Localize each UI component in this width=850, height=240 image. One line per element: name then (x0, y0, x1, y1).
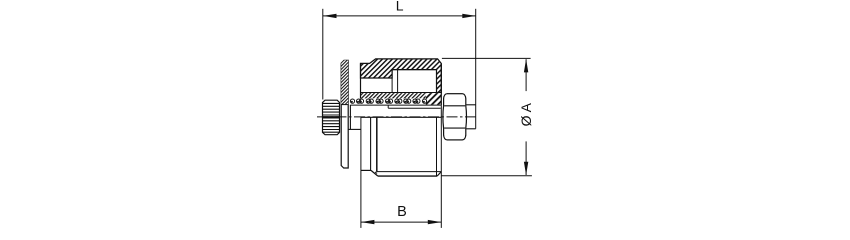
spring sleeve hatched strip (361, 93, 426, 98)
spring coil circles (350, 99, 426, 103)
hex face lines (444, 105, 465, 107)
hex nut outline (443, 94, 467, 140)
block inner right edge (436, 117, 438, 176)
shaft lower silhouette (348, 128, 361, 130)
body right face line (440, 64, 442, 106)
flange hatch bottom boundary (341, 104, 348, 106)
small left corner chamfer line (375, 172, 377, 174)
threaded stub (466, 105, 476, 129)
block chamfer edge line (377, 171, 441, 173)
block left edge (376, 117, 378, 172)
neck left edge + B extension line (360, 117, 362, 228)
coarse hatched end block (426, 93, 442, 105)
svg-text:Ø A: Ø A (518, 102, 534, 126)
bore line below spring (350, 104, 441, 106)
spring seat washer edge (349, 105, 351, 129)
dimension A top extension line (442, 57, 531, 59)
neck bottom silhouette (361, 169, 371, 171)
neck right edge (370, 117, 372, 170)
spring coil shading dots (351, 101, 425, 103)
flange washer hatch (341, 60, 348, 104)
counterbore line (388, 107, 441, 109)
body right edge + B extension line (440, 105, 442, 228)
block bottom silhouette (378, 175, 437, 177)
svg-text:B: B (397, 204, 407, 220)
dimension A bottom extension line (441, 175, 532, 177)
block left chamfer (371, 170, 378, 176)
centerline solid band across knurl (323, 116, 340, 118)
dimension B line with arrows (361, 220, 441, 224)
dimension L line with arrows (323, 14, 476, 18)
upper body section hatch (361, 59, 442, 93)
flange washer outline (341, 60, 348, 168)
dimension L right extension line (also right edge of stub) (475, 9, 477, 129)
bore shoulder line (361, 92, 442, 94)
lower body top edge at axis (361, 116, 441, 118)
upper body inner step lines (361, 70, 437, 93)
block right chamfer (437, 172, 441, 177)
svg-text:L: L (396, 0, 404, 14)
dimension L left extension line (322, 9, 324, 100)
dimension A vertical line with arrows (524, 59, 528, 175)
centerline (axis) (317, 116, 478, 118)
knurled head (323, 100, 340, 135)
body left face line (360, 63, 362, 98)
counterbore step (387, 105, 389, 108)
